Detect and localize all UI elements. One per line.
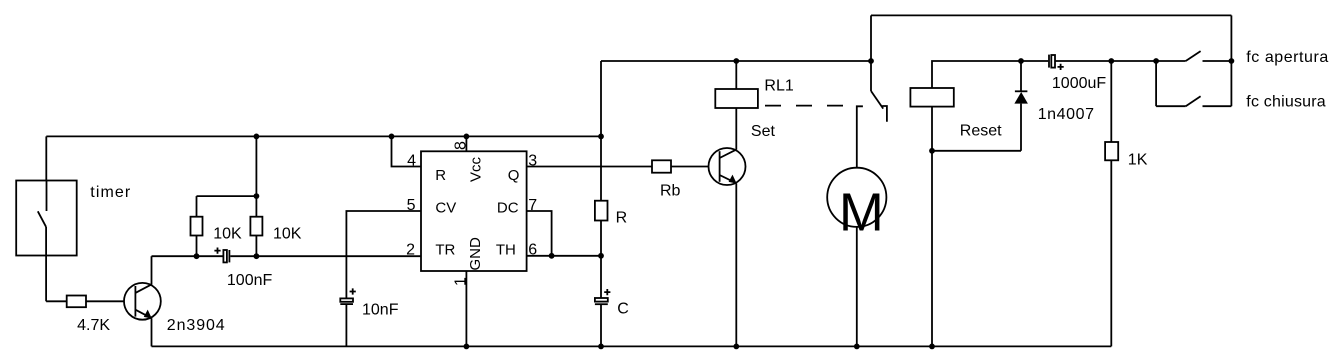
- node junction dot 1K branch: [1108, 58, 1114, 64]
- switch fc chiusura lever: [1186, 96, 1201, 106]
- switch fc apertura lever: [1186, 51, 1201, 61]
- node junction dot rail/pin4 branch: [389, 134, 395, 140]
- wire 10K-2 bottom lead: [255, 236, 257, 257]
- node junction dot DC/TH: [549, 253, 555, 259]
- relay contact Set: pivot lead: [870, 61, 872, 91]
- wire Q1 emitter down: [151, 318, 153, 346]
- svg-text:4.7K: 4.7K: [77, 317, 110, 334]
- wire 1000uF to fc switches: [1055, 60, 1186, 62]
- wire timer top lead: [45, 136, 47, 181]
- svg-text:timer: timer: [90, 184, 131, 201]
- transistor Q1 2n3904: [124, 283, 161, 320]
- relay contact Set: lever: [871, 91, 883, 109]
- node junction dot ground/Q2 emitter: [733, 344, 739, 350]
- switch fc chiusura right lead: [1203, 105, 1232, 107]
- wire Q1 collector up: [151, 256, 153, 284]
- svg-text:RL1: RL1: [764, 78, 793, 95]
- node junction dot fc apertura/top vertical: [1229, 58, 1235, 64]
- resistor 1K lead top: [1110, 61, 1112, 142]
- relay contact Set: left contact to motor: [857, 106, 863, 167]
- svg-text:R: R: [616, 210, 628, 227]
- svg-text:1n4007: 1n4007: [1038, 106, 1095, 123]
- transistor Q2: [709, 148, 746, 185]
- svg-text:2n3904: 2n3904: [167, 317, 226, 334]
- svg-text:4: 4: [407, 152, 416, 169]
- wire rail to pin 4: [392, 136, 422, 166]
- wire Q2 collector to RL1 coil: [735, 108, 737, 150]
- svg-text:TR: TR: [435, 242, 455, 259]
- node junction dot Reset/diode branch: [929, 148, 935, 154]
- node junction dot fc common: [1153, 58, 1159, 64]
- switch fc apertura right lead: [1203, 60, 1232, 62]
- node junction dot diode/top wire: [1018, 58, 1024, 64]
- svg-text:TH: TH: [496, 242, 516, 259]
- resistor Rb: [652, 160, 671, 172]
- wire fc chiusura left lead: [1156, 105, 1186, 107]
- wire top feedback rail: [871, 14, 1231, 16]
- wire fc common vertical: [1155, 61, 1157, 106]
- switch inside timer: lever: [38, 211, 46, 227]
- node junction dot TH/RC: [598, 253, 604, 259]
- resistor 1K: [1105, 142, 1118, 160]
- node junction dot mid rail/RL1: [733, 58, 739, 64]
- capacitor 100nF: [214, 248, 229, 263]
- resistor 10K first: [191, 217, 203, 236]
- wire 4.7K to Q1 base: [86, 300, 135, 302]
- wire mid rail: [601, 60, 871, 62]
- node junction dot mid rail/contact pivot: [868, 58, 874, 64]
- node junction dot rail/right vertical: [598, 134, 604, 140]
- svg-text:Vcc: Vcc: [467, 156, 484, 182]
- svg-text:fc chiusura: fc chiusura: [1246, 93, 1326, 110]
- relay coil Reset: [910, 88, 953, 107]
- node junction dot rail/pin8 stub: [464, 134, 470, 140]
- node junction dot 10K-1 bottom: [194, 253, 200, 259]
- svg-text:GND: GND: [467, 237, 484, 271]
- wire pin 1 to ground rail: [465, 271, 467, 346]
- wire pin 7 DC jog to TH: [527, 211, 552, 256]
- svg-text:M: M: [839, 183, 884, 243]
- wire pin 6 TH to R/C node: [527, 255, 601, 257]
- capacitor 1000uF: [1049, 55, 1064, 70]
- wire pin 5 CV to 10nF: [346, 211, 421, 298]
- wire Q2 emitter to ground rail: [735, 183, 737, 346]
- resistor R: [595, 201, 608, 221]
- dashed mechanical link RL1 to contact: [765, 105, 843, 107]
- svg-text:Rb: Rb: [660, 182, 681, 199]
- wire top-left supply rail: [46, 135, 601, 137]
- svg-text:10K: 10K: [273, 226, 302, 243]
- diode 1n4007: [1014, 61, 1028, 151]
- wire 10K-1 top lead: [196, 196, 198, 217]
- wire C to ground rail: [600, 304, 602, 346]
- node junction dot ground/motor: [854, 344, 860, 350]
- wire rail to 10K-2: [255, 136, 257, 216]
- node junction dot 10K-2 bottom: [254, 253, 260, 259]
- wire Reset coil top to rail: [932, 61, 1048, 88]
- node junction dot ground/pin1: [464, 344, 470, 350]
- svg-text:Set: Set: [751, 123, 776, 140]
- svg-text:1000uF: 1000uF: [1052, 75, 1106, 92]
- wire 10K pair top connector: [197, 195, 257, 197]
- wire right vertical R C branch top: [600, 61, 602, 201]
- svg-text:10K: 10K: [213, 226, 242, 243]
- relay contact Set: right open contact: [882, 106, 887, 122]
- svg-text:R: R: [435, 167, 446, 184]
- node junction dot connector/rail branch: [254, 193, 260, 199]
- wire RL1 coil to mid rail: [735, 61, 737, 89]
- wire 1K to ground rail: [1110, 160, 1112, 346]
- relay coil RL1: [715, 89, 758, 108]
- node junction dot ground/C: [598, 344, 604, 350]
- svg-text:1K: 1K: [1128, 152, 1148, 169]
- op-amp U1 555 body: [421, 151, 527, 271]
- timer box: [16, 181, 76, 256]
- wire R to C segment: [600, 221, 602, 299]
- wire top rail left vertical: [870, 15, 872, 61]
- capacitor 10nF: [340, 288, 356, 304]
- wire 10K-1 bottom lead: [196, 236, 198, 257]
- svg-text:CV: CV: [435, 199, 456, 216]
- wire motor to ground rail: [856, 227, 858, 347]
- svg-text:C: C: [617, 300, 629, 317]
- wire Reset coil bottom to ground rail: [931, 107, 933, 347]
- wire pin 8 stub: [465, 136, 467, 151]
- switch inside timer: upper contact: [46, 181, 48, 211]
- svg-text:2: 2: [406, 241, 415, 258]
- resistor 10K second: [250, 217, 262, 236]
- wire Rb to Q2 base: [671, 166, 720, 168]
- node junction dot rail/10K branch: [254, 134, 260, 140]
- wire Q1 collector to 100nF (TR net left): [152, 255, 224, 257]
- wire top rail right vertical: [1230, 15, 1232, 106]
- wire timer to 4.7K resistor: [46, 300, 67, 302]
- svg-text:DC: DC: [497, 199, 519, 216]
- svg-text:100nF: 100nF: [227, 272, 273, 289]
- switch inside timer: lower lead: [45, 227, 47, 301]
- motor M1: [827, 168, 886, 243]
- wire diode branch bottom: [932, 150, 1021, 152]
- svg-text:fc apertura: fc apertura: [1246, 49, 1329, 66]
- wire 100nF to 555 pin2 (TR net right): [230, 255, 421, 257]
- wire 10nF bottom lead: [345, 304, 347, 346]
- svg-text:Reset: Reset: [960, 122, 1002, 139]
- wire ground rail: [152, 345, 1112, 347]
- svg-text:10nF: 10nF: [362, 301, 399, 318]
- resistor 4.7K: [67, 296, 86, 308]
- capacitor C: [595, 289, 611, 304]
- svg-text:Q: Q: [508, 167, 520, 184]
- wire pin 3 Q output to Rb: [527, 166, 652, 168]
- node junction dot ground/Reset coil: [929, 344, 935, 350]
